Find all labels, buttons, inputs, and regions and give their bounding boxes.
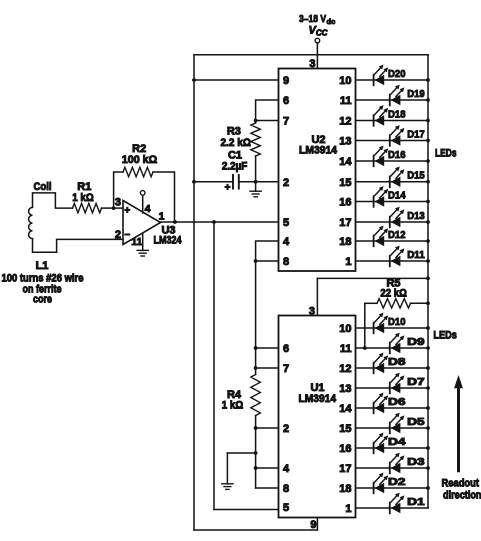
svg-text:11: 11: [131, 236, 142, 248]
svg-text:D7: D7: [407, 376, 425, 388]
svg-text:L1: L1: [36, 260, 49, 272]
svg-text:18: 18: [339, 483, 351, 495]
svg-text:2: 2: [283, 423, 289, 435]
svg-text:D9: D9: [407, 336, 425, 348]
svg-text:1: 1: [345, 256, 351, 268]
svg-text:+: +: [124, 206, 130, 217]
svg-text:17: 17: [339, 463, 351, 475]
svg-text:17: 17: [339, 217, 351, 229]
svg-text:1 kΩ: 1 kΩ: [222, 400, 244, 412]
svg-text:13: 13: [339, 136, 351, 148]
svg-text:D15: D15: [407, 170, 425, 182]
svg-text:VCC: VCC: [309, 25, 328, 38]
svg-text:1: 1: [159, 211, 165, 223]
svg-text:D8: D8: [388, 356, 406, 368]
svg-text:4: 4: [145, 203, 151, 215]
svg-text:dc: dc: [327, 17, 336, 26]
svg-text:D18: D18: [388, 108, 406, 120]
svg-text:D19: D19: [407, 88, 425, 100]
svg-text:D4: D4: [388, 436, 406, 448]
svg-text:LEDs: LEDs: [435, 148, 457, 160]
svg-text:1: 1: [345, 503, 351, 515]
svg-text:2: 2: [115, 229, 121, 241]
svg-text:15: 15: [339, 423, 351, 435]
svg-text:3: 3: [309, 306, 315, 318]
svg-text:16: 16: [339, 443, 351, 455]
svg-text:12: 12: [339, 363, 351, 375]
svg-text:100 kΩ: 100 kΩ: [122, 154, 158, 166]
svg-text:22 kΩ: 22 kΩ: [380, 288, 407, 300]
svg-text:D12: D12: [388, 229, 406, 241]
svg-text:2.2 kΩ: 2.2 kΩ: [220, 137, 251, 149]
svg-text:+: +: [225, 183, 231, 194]
svg-text:LM324: LM324: [154, 235, 183, 247]
svg-text:10: 10: [339, 75, 351, 87]
svg-text:LEDs: LEDs: [433, 330, 457, 342]
svg-text:D1: D1: [407, 496, 425, 508]
svg-text:4: 4: [283, 463, 290, 475]
svg-text:2: 2: [283, 177, 289, 189]
svg-text:2.2µF: 2.2µF: [222, 161, 248, 173]
svg-text:D16: D16: [388, 149, 406, 161]
svg-text:6: 6: [283, 95, 289, 107]
svg-text:D2: D2: [388, 476, 406, 488]
svg-text:4: 4: [283, 236, 290, 248]
svg-text:D20: D20: [388, 68, 406, 80]
svg-text:8: 8: [283, 483, 289, 495]
svg-text:D17: D17: [407, 128, 425, 140]
svg-text:D14: D14: [388, 189, 406, 201]
svg-text:1 kΩ: 1 kΩ: [72, 192, 94, 204]
svg-text:11: 11: [340, 343, 352, 355]
svg-text:7: 7: [283, 116, 289, 128]
svg-text:LM3914: LM3914: [299, 145, 338, 157]
svg-text:5: 5: [283, 502, 289, 514]
svg-text:Coil: Coil: [34, 181, 52, 193]
svg-text:LM3914: LM3914: [299, 393, 337, 405]
svg-text:10: 10: [339, 323, 351, 335]
svg-text:11: 11: [340, 95, 352, 107]
svg-text:D6: D6: [388, 396, 406, 408]
svg-text:6: 6: [283, 343, 289, 355]
svg-text:3–18 V: 3–18 V: [299, 13, 326, 25]
svg-text:14: 14: [339, 156, 352, 168]
svg-text:12: 12: [339, 116, 351, 128]
svg-text:8: 8: [283, 256, 289, 268]
svg-text:14: 14: [339, 403, 352, 415]
svg-text:R3: R3: [227, 126, 241, 138]
svg-text:D11: D11: [407, 249, 425, 261]
svg-text:direction: direction: [443, 489, 481, 501]
svg-text:D10: D10: [388, 316, 406, 328]
svg-text:18: 18: [339, 236, 351, 248]
svg-text:D13: D13: [407, 210, 425, 222]
svg-text:16: 16: [339, 197, 351, 209]
svg-text:15: 15: [339, 177, 351, 189]
svg-text:7: 7: [283, 363, 289, 375]
svg-text:5: 5: [283, 217, 289, 229]
svg-text:D3: D3: [407, 456, 425, 468]
svg-text:13: 13: [339, 383, 351, 395]
svg-text:Readout: Readout: [442, 478, 480, 490]
svg-text:D5: D5: [407, 416, 425, 428]
svg-text:9: 9: [310, 519, 316, 531]
svg-text:core: core: [33, 294, 52, 306]
svg-text:9: 9: [283, 75, 289, 87]
svg-text:3: 3: [309, 58, 315, 70]
svg-text:–: –: [125, 229, 131, 240]
svg-text:3: 3: [115, 197, 121, 209]
